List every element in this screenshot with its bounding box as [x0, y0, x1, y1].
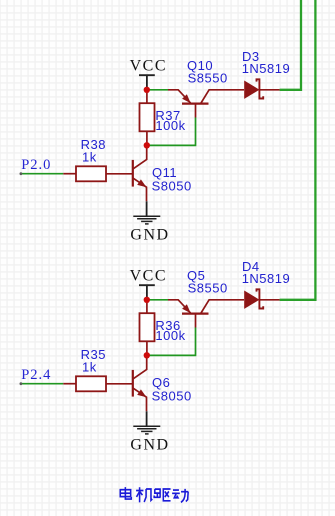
- svg-text:1N5819: 1N5819: [242, 61, 291, 76]
- svg-text:S8550: S8550: [188, 281, 228, 296]
- svg-text:1k: 1k: [82, 360, 97, 375]
- svg-text:S8050: S8050: [152, 179, 192, 194]
- svg-text:VCC: VCC: [130, 268, 167, 285]
- svg-text:GND: GND: [130, 436, 169, 453]
- svg-text:1k: 1k: [82, 150, 97, 165]
- svg-text:P2.4: P2.4: [21, 367, 51, 383]
- svg-text:S8050: S8050: [152, 389, 192, 404]
- svg-text:GND: GND: [130, 226, 169, 243]
- svg-text:S8550: S8550: [188, 71, 228, 86]
- svg-text:P2.0: P2.0: [21, 157, 51, 173]
- svg-text:100k: 100k: [155, 118, 185, 133]
- svg-text:VCC: VCC: [130, 58, 167, 75]
- svg-text:100k: 100k: [155, 328, 185, 343]
- svg-text:1N5819: 1N5819: [242, 271, 291, 286]
